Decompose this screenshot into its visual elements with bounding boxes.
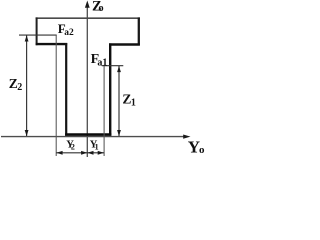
svg-text:a1: a1 <box>97 58 107 69</box>
svg-text:a2: a2 <box>64 28 74 38</box>
svg-text:1: 1 <box>131 98 136 109</box>
svg-text:o: o <box>98 3 103 14</box>
svg-text:2: 2 <box>71 142 75 151</box>
svg-text:o: o <box>199 144 205 156</box>
svg-text:2: 2 <box>17 82 22 93</box>
svg-text:1: 1 <box>95 142 99 151</box>
